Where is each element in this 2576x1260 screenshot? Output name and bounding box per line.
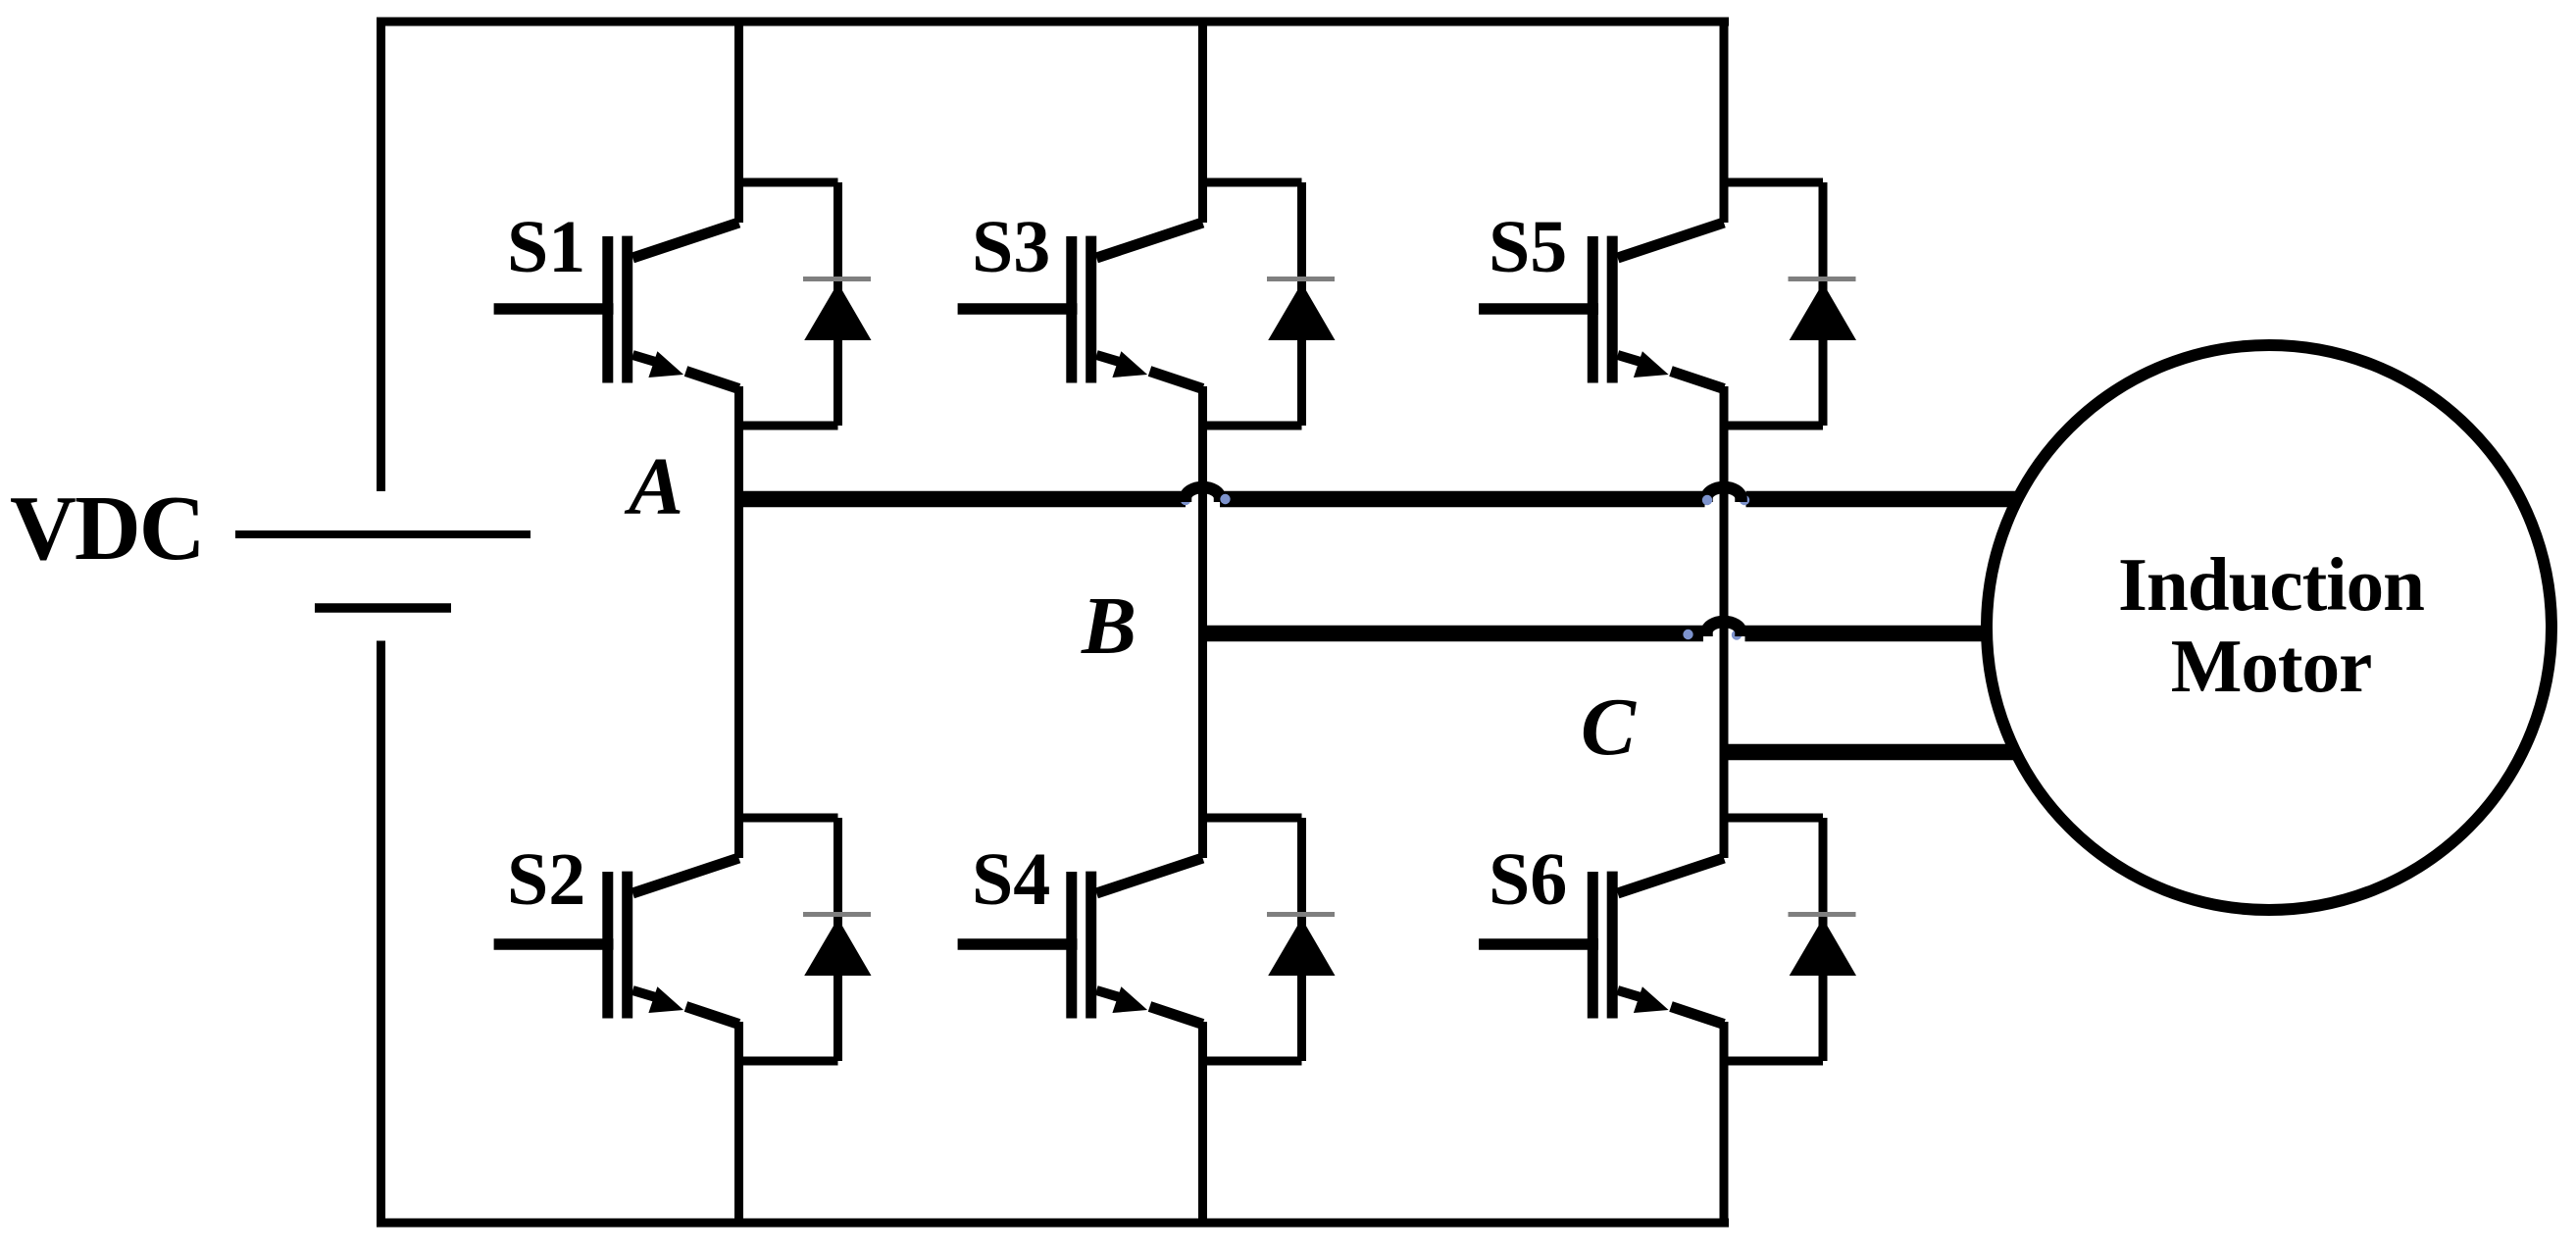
transistor S3 with freewheeling diode [958,182,1336,426]
wire phase A output bus segment 2 [1220,491,1705,508]
svg-text:Induction: Induction [2118,542,2424,627]
wire bottom DC rail [377,1219,1729,1228]
svg-text:Motor: Motor [2171,624,2372,708]
transistor S6 with freewheeling diode [1479,818,1856,1061]
svg-text:A: A [624,441,683,532]
hop of bus A over leg B [1186,487,1220,502]
svg-text:S5: S5 [1489,206,1567,288]
hop of bus A over leg C [1707,487,1742,502]
svg-text:S1: S1 [507,206,585,288]
battery VDC negative plate [315,603,451,613]
wire phase leg B upper (collector of S3) [1198,18,1207,224]
wire phase leg B lower (S4 emitter to bottom rail) [1198,1022,1207,1228]
wire left rail upper segment [377,18,385,492]
transistor S1 with freewheeling diode [494,182,872,426]
wire phase A output bus segment 1 [739,491,1187,508]
wire phase leg C middle (S5 emitter to S6 collector through node C) [1720,386,1729,858]
junction dot left of hop at bus A over leg C [1702,495,1712,505]
junction dot right of hop at bus A over leg C [1740,495,1749,505]
svg-text:S3: S3 [972,206,1050,288]
transistor S2 with freewheeling diode [494,818,872,1061]
transistor S4 with freewheeling diode [958,818,1336,1061]
wire phase B output bus segment 2 [1745,626,1994,642]
battery VDC positive plate [235,530,530,538]
junction dot left of hop at bus A over leg B [1181,495,1190,505]
junction dot right of hop at bus A over leg B [1220,494,1230,504]
hop of bus B over leg C [1707,622,1742,636]
wire phase leg A upper (collector of S1) [734,18,743,224]
wire phase leg B middle (S3 emitter to S4 collector through node B) [1198,386,1207,858]
svg-text:S4: S4 [972,838,1050,921]
wire phase C output bus [1724,744,2020,761]
wire phase leg A middle (S1 emitter to S2 collector through node A) [734,386,743,858]
wire phase leg C upper (collector of S5) [1720,18,1729,224]
wire phase leg C lower (S6 emitter to bottom rail) [1720,1022,1729,1228]
svg-text:B: B [1081,580,1136,672]
wire left rail lower segment [377,641,385,1228]
svg-text:S6: S6 [1489,838,1567,921]
junction dot left of hop at bus B over leg C [1683,630,1692,639]
svg-text:S2: S2 [507,838,585,921]
induction motor circle [1987,345,2551,910]
wire phase leg A lower (S2 emitter to bottom rail) [734,1022,743,1228]
wire phase B output bus segment 1 [1203,626,1704,642]
svg-text:C: C [1581,681,1637,773]
wire phase A output bus segment 3 [1746,491,2023,508]
transistor S5 with freewheeling diode [1479,182,1856,426]
wire top DC rail [377,18,1729,26]
junction dot right of hop at bus B over leg C [1732,630,1742,639]
svg-text:VDC: VDC [10,478,204,580]
